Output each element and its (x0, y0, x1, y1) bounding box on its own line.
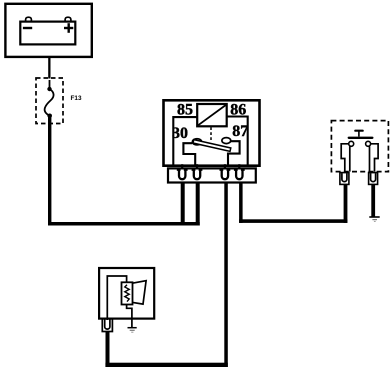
svg-text:87: 87 (232, 123, 248, 140)
svg-text:30: 30 (172, 125, 188, 142)
svg-text:F13: F13 (71, 95, 82, 102)
svg-text:86: 86 (230, 102, 246, 119)
svg-text:85: 85 (177, 102, 193, 119)
